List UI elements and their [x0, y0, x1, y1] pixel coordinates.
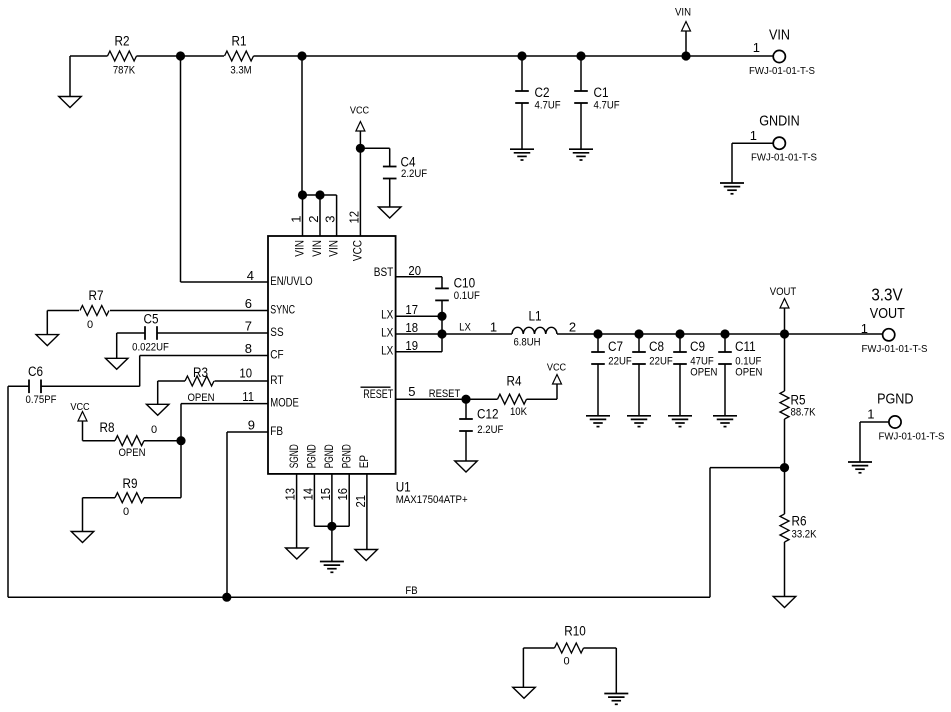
capacitor C10 — [435, 277, 449, 352]
svg-text:0.1UF: 0.1UF — [454, 290, 480, 302]
ground (earth) PGND — [848, 461, 872, 463]
svg-text:5: 5 — [408, 384, 415, 399]
node junction C7 — [593, 329, 602, 338]
wire PGND to ground — [860, 422, 889, 462]
svg-text:1: 1 — [289, 216, 304, 223]
svg-text:LX: LX — [381, 310, 393, 322]
capacitor C11 — [718, 334, 732, 416]
wire FB feedback up — [710, 468, 785, 598]
svg-text:SYNC: SYNC — [270, 304, 295, 316]
resistor R10 — [523, 643, 616, 694]
svg-text:LX: LX — [381, 328, 393, 340]
svg-text:C7: C7 — [608, 339, 623, 354]
wire pin 12 — [359, 148, 361, 236]
svg-text:6.8UH: 6.8UH — [513, 337, 540, 349]
wire LX pin 17 — [396, 315, 442, 317]
svg-text:R3: R3 — [193, 365, 208, 380]
svg-text:6: 6 — [245, 296, 252, 311]
svg-text:C10: C10 — [454, 276, 476, 291]
svg-text:RT: RT — [270, 375, 283, 387]
svg-text:C11: C11 — [735, 339, 756, 354]
svg-text:17: 17 — [405, 302, 418, 317]
svg-text:FB: FB — [270, 426, 283, 438]
svg-text:1: 1 — [867, 406, 874, 421]
svg-text:19: 19 — [405, 338, 418, 353]
svg-text:VOUT: VOUT — [870, 306, 905, 322]
ground (earth) C7 — [586, 415, 610, 417]
ground (triangle) R7 — [36, 335, 59, 346]
svg-text:0: 0 — [151, 424, 157, 436]
svg-text:C1: C1 — [594, 85, 609, 100]
svg-text:L1: L1 — [528, 309, 541, 324]
node junction LX17 — [437, 312, 446, 321]
ground (earth) C11 — [713, 415, 737, 417]
svg-text:PGND: PGND — [877, 392, 913, 408]
svg-text:PGND: PGND — [342, 444, 354, 468]
svg-text:BST: BST — [374, 267, 394, 279]
svg-text:3: 3 — [323, 216, 338, 223]
svg-text:VIN: VIN — [675, 7, 691, 19]
svg-text:C8: C8 — [649, 339, 664, 354]
node junction C11 — [720, 329, 729, 338]
ground (earth) R10 — [604, 693, 628, 695]
svg-text:18: 18 — [405, 320, 418, 335]
ground (triangle) C5 — [105, 358, 128, 369]
svg-text:FWJ-01-01-T-S: FWJ-01-01-T-S — [862, 343, 928, 355]
svg-text:OPEN: OPEN — [690, 367, 717, 379]
svg-text:1: 1 — [490, 320, 497, 335]
wire FB pin 9 — [227, 432, 268, 597]
svg-text:FWJ-01-01-T-S: FWJ-01-01-T-S — [879, 431, 945, 443]
wire R8 node to R9 — [180, 441, 182, 498]
capacitor C6 — [8, 380, 41, 394]
node junction LX18 — [437, 329, 446, 338]
power flag VIN — [675, 7, 691, 57]
wire VIN top rail — [70, 56, 773, 97]
svg-text:11: 11 — [242, 389, 254, 404]
svg-text:0: 0 — [563, 656, 569, 668]
ground (triangle) pin 13 — [286, 548, 309, 559]
ground (triangle) at R2 left — [59, 97, 82, 108]
connector VOUT pad — [861, 321, 895, 341]
capacitor C2 — [515, 56, 529, 149]
svg-text:LX: LX — [459, 322, 471, 334]
wire VOUT rail — [557, 333, 883, 335]
svg-text:0.1UF: 0.1UF — [735, 355, 761, 367]
svg-text:R5: R5 — [791, 393, 806, 408]
wire EN/UVLO pin 4 — [181, 56, 269, 282]
svg-text:CF: CF — [270, 349, 283, 361]
svg-text:FWJ-01-01-T-S: FWJ-01-01-T-S — [749, 65, 815, 77]
resistor R7 — [47, 306, 268, 335]
svg-text:SS: SS — [270, 327, 284, 339]
svg-text:0: 0 — [87, 319, 93, 331]
node junction VIN pins column — [297, 51, 306, 60]
resistor R6 — [780, 468, 789, 597]
svg-text:MAX17504ATP+: MAX17504ATP+ — [396, 494, 468, 506]
svg-text:88.7K: 88.7K — [791, 407, 817, 419]
svg-text:VCC: VCC — [70, 401, 90, 413]
ground (triangle) pin 21 — [355, 550, 378, 561]
svg-text:787K: 787K — [113, 65, 136, 77]
wire GNDIN to ground — [732, 143, 773, 183]
wire LX net to L1 — [442, 333, 512, 335]
node junction C2 — [517, 51, 526, 60]
svg-text:SGND: SGND — [289, 444, 301, 468]
svg-text:R1: R1 — [232, 34, 247, 49]
capacitor C9 — [673, 334, 687, 416]
svg-text:R4: R4 — [507, 373, 522, 388]
svg-text:0.75PF: 0.75PF — [26, 394, 57, 406]
svg-text:R10: R10 — [564, 624, 586, 639]
svg-text:R2: R2 — [115, 34, 130, 49]
svg-text:1: 1 — [861, 321, 868, 336]
ground (triangle) R3 — [146, 404, 169, 415]
svg-text:OPEN: OPEN — [118, 447, 145, 459]
capacitor C8 — [632, 334, 646, 416]
svg-text:47UF: 47UF — [690, 355, 714, 367]
svg-text:2.2UF: 2.2UF — [477, 424, 503, 436]
svg-text:C12: C12 — [477, 406, 499, 421]
wire VCC to C4 — [360, 147, 389, 149]
svg-text:OPEN: OPEN — [735, 367, 762, 379]
wire LX pin 18 — [396, 333, 442, 335]
ground (triangle) R9 — [71, 532, 94, 543]
ground (earth) pin 15 — [320, 561, 344, 563]
svg-text:0: 0 — [123, 506, 129, 518]
wire PGND pin 15 — [331, 474, 333, 561]
svg-text:C2: C2 — [535, 85, 550, 100]
svg-text:VIN: VIN — [312, 240, 324, 257]
svg-text:4.7UF: 4.7UF — [535, 100, 561, 112]
wire EP pin 21 — [366, 474, 368, 550]
resistor R5 — [780, 334, 789, 468]
svg-text:VCC: VCC — [352, 240, 364, 261]
resistor R4 — [466, 394, 557, 404]
ground (triangle) R6 — [773, 597, 796, 608]
svg-text:VCC: VCC — [350, 105, 370, 117]
capacitor C4 — [383, 148, 397, 207]
node junction VCC/C4 — [356, 144, 365, 153]
node junction C8 — [634, 329, 643, 338]
svg-text:VIN: VIN — [295, 240, 307, 257]
svg-text:14: 14 — [300, 488, 315, 501]
power flag VCC (pin 12) — [350, 105, 370, 149]
node junction FB pin9 — [222, 593, 231, 602]
ground (earth) below C1 — [569, 148, 593, 150]
svg-text:R6: R6 — [792, 514, 807, 529]
svg-text:LX: LX — [381, 345, 393, 357]
power flag VOUT — [770, 286, 797, 334]
svg-text:9: 9 — [248, 418, 255, 433]
node junction R5/R6/FB — [780, 463, 789, 472]
wire VIN rail to pin1 column — [301, 56, 303, 195]
svg-text:RESET: RESET — [363, 389, 393, 401]
node junction PGND pins — [327, 522, 336, 531]
svg-text:FB: FB — [405, 585, 417, 597]
svg-text:2: 2 — [569, 320, 576, 335]
wire CF pin 8 to C6 — [41, 356, 268, 387]
wire LX pin 19 — [396, 351, 442, 353]
svg-text:RESET: RESET — [429, 388, 461, 400]
svg-text:1: 1 — [753, 40, 760, 55]
svg-text:EN/UVLO: EN/UVLO — [270, 276, 312, 288]
svg-text:4.7UF: 4.7UF — [594, 100, 620, 112]
wire MODE pin 11 — [181, 404, 268, 441]
svg-text:12: 12 — [346, 211, 361, 224]
svg-text:0.022UF: 0.022UF — [132, 342, 169, 354]
svg-text:22UF: 22UF — [649, 355, 673, 367]
resistor R8 — [83, 436, 182, 446]
power flag VCC (R8) — [70, 401, 90, 441]
svg-text:3.3M: 3.3M — [230, 65, 251, 77]
ground (earth) below C2 — [510, 148, 534, 150]
wire PGND pin 16 — [332, 474, 349, 526]
wire SGND pin 13 — [296, 474, 298, 548]
ground (triangle) R10 — [513, 687, 536, 698]
connector GNDIN pad — [750, 128, 786, 149]
resistor R2 — [108, 51, 137, 61]
IC U1 MAX17504ATP+ body — [268, 236, 396, 474]
svg-text:VIN: VIN — [769, 28, 790, 44]
wire BST pin 20 — [396, 276, 442, 278]
wire RESET pin 5 — [396, 398, 466, 400]
svg-text:22UF: 22UF — [608, 355, 632, 367]
node junction VOUT/R5 — [780, 329, 789, 338]
svg-text:VCC: VCC — [547, 361, 567, 373]
svg-text:C5: C5 — [144, 312, 159, 327]
svg-text:VIN: VIN — [329, 240, 341, 257]
node junction C9 — [675, 329, 684, 338]
svg-text:7: 7 — [245, 318, 252, 333]
connector PGND pad — [867, 406, 901, 428]
svg-text:4: 4 — [247, 268, 254, 283]
node junction RESET/C12/R4 — [461, 395, 470, 404]
svg-text:15: 15 — [318, 488, 333, 501]
svg-text:16: 16 — [335, 488, 350, 501]
svg-text:21: 21 — [353, 495, 368, 508]
svg-text:20: 20 — [408, 263, 421, 278]
svg-text:2.2UF: 2.2UF — [401, 168, 427, 180]
ground (earth) GNDIN — [720, 182, 744, 184]
svg-text:OPEN: OPEN — [187, 392, 214, 404]
resistor R3 — [158, 376, 268, 404]
svg-text:FWJ-01-01-T-S: FWJ-01-01-T-S — [751, 152, 817, 164]
ground (triangle) below C4 — [378, 207, 401, 218]
node junction pin1 — [298, 190, 307, 199]
svg-text:3.3V: 3.3V — [871, 284, 903, 304]
wire FB bottom rail — [8, 596, 710, 598]
capacitor C12 — [459, 399, 473, 461]
ground (triangle) C12 — [455, 461, 478, 472]
svg-text:GNDIN: GNDIN — [759, 114, 800, 130]
inductor L1 — [512, 327, 557, 334]
svg-text:C6: C6 — [28, 364, 43, 379]
power flag VCC (R4) — [547, 361, 567, 399]
svg-text:10: 10 — [239, 365, 252, 380]
svg-text:VOUT: VOUT — [770, 286, 797, 298]
svg-text:R9: R9 — [123, 476, 138, 491]
node junction C1 — [576, 51, 585, 60]
ground (earth) C9 — [668, 415, 692, 417]
capacitor C7 — [591, 334, 605, 416]
capacitor C1 — [574, 56, 588, 149]
node junction pin2 — [315, 190, 324, 199]
svg-text:33.2K: 33.2K — [792, 529, 818, 541]
connector J-VIN pad — [753, 40, 786, 63]
svg-text:R7: R7 — [89, 288, 104, 303]
svg-text:2: 2 — [306, 216, 321, 223]
svg-text:1: 1 — [750, 128, 757, 143]
wire PGND pin 14 — [314, 474, 332, 526]
wire pins 1-2-3 tie — [303, 195, 337, 236]
node junction VIN power flag — [681, 51, 690, 60]
svg-text:MODE: MODE — [270, 397, 299, 409]
svg-text:R8: R8 — [100, 420, 115, 435]
svg-text:10K: 10K — [510, 406, 528, 418]
node junction R2/R1/EN-UVLO — [176, 51, 185, 60]
svg-text:EP: EP — [359, 455, 371, 469]
svg-text:8: 8 — [245, 341, 252, 356]
resistor R9 — [83, 493, 182, 532]
wire C6 to FB bottom rail — [7, 386, 9, 597]
ground (earth) C8 — [627, 415, 651, 417]
svg-text:PGND: PGND — [324, 444, 336, 468]
pin name RESET (overbar) — [361, 387, 394, 401]
svg-text:13: 13 — [283, 488, 298, 501]
svg-text:PGND: PGND — [307, 444, 319, 468]
svg-text:U1: U1 — [396, 480, 411, 495]
node junction MODE/R8/R9 — [176, 436, 185, 445]
capacitor C5 — [117, 326, 268, 358]
resistor R1 — [225, 51, 254, 61]
svg-text:C9: C9 — [690, 339, 705, 354]
